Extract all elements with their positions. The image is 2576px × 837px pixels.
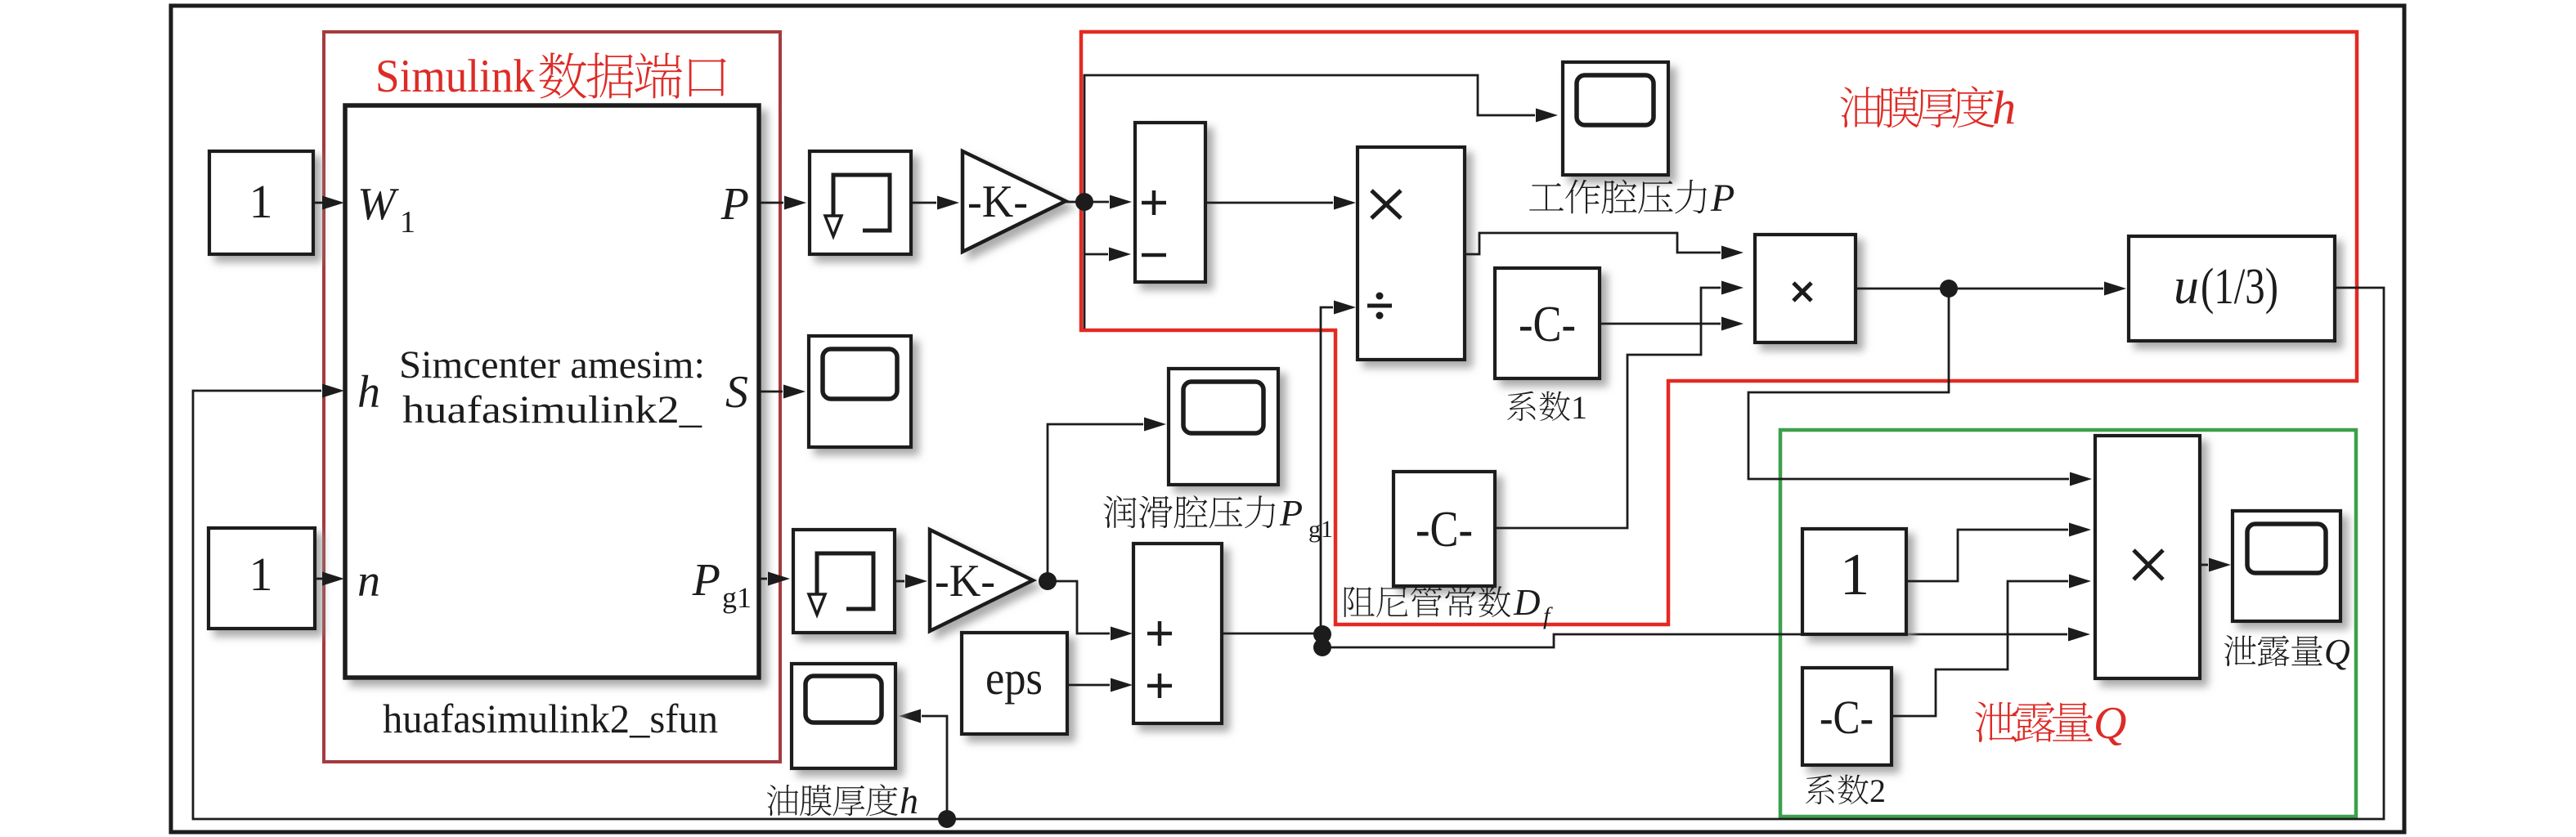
wire: sum1 to product1	[1205, 196, 1356, 210]
scope: working chamber pressure P	[1563, 62, 1668, 175]
wire: gain2 junction	[1039, 572, 1057, 590]
label: huafasimulink2_sfun	[383, 696, 718, 741]
multiplier block 2 (x)	[1755, 235, 1856, 342]
svg-text:h: h	[357, 367, 380, 418]
svg-text:1: 1	[400, 205, 415, 239]
svg-text:P: P	[692, 555, 720, 606]
wire: const1 to W1 port	[313, 196, 344, 210]
wire: junction long run to leakage multiplier input 4	[1322, 628, 2090, 648]
label: coefficient 2	[1806, 772, 1886, 809]
wire: junction to sum2 first plus input	[1048, 581, 1133, 641]
svg-text:1: 1	[1840, 541, 1870, 607]
wire: junction up to divide input of product1	[1321, 301, 1356, 634]
svg-text:-C-: -C-	[1820, 691, 1874, 744]
wire: junction down-left into green region multiplier input 1	[1748, 289, 2092, 486]
wire: sum2 output to junction with stacked dots	[1222, 625, 1331, 656]
svg-text:h: h	[900, 780, 918, 821]
label: working chamber pressure P	[1529, 177, 1735, 220]
wire: memory2 to gain2	[895, 575, 927, 589]
scope S	[809, 336, 911, 447]
gain block 1 (-K-)	[963, 151, 1066, 252]
svg-text:Simulink: Simulink	[375, 51, 535, 102]
constant block 1 (input W1)	[209, 151, 313, 254]
svg-text:D: D	[1513, 582, 1541, 623]
scope: oil film thickness h (flipped)	[792, 664, 895, 768]
wire: multiplier2 to u(1/3) with junction	[1855, 280, 2126, 298]
sum block 1 (+ -)	[1135, 123, 1205, 282]
svg-text:eps: eps	[985, 651, 1043, 705]
svg-text:S: S	[725, 367, 748, 418]
wire: coefficient2 to multiplier3 input 3	[1892, 575, 2091, 717]
wire: memory1 to gain1	[911, 196, 959, 210]
multiplier block 3 (x, leakage)	[2095, 436, 2200, 678]
wire: const to n port	[315, 572, 344, 586]
wire: junction A down to sum1 minus input	[1084, 202, 1131, 329]
green annotation box: leakage Q region	[1780, 430, 2356, 817]
svg-text:W: W	[357, 179, 399, 230]
svg-text:huafasimulink2_: huafasimulink2_	[402, 388, 702, 432]
wire: junction A up to working-chamber-pressure scope	[1084, 75, 1558, 202]
svg-text:-K-: -K-	[967, 177, 1028, 227]
wire: product1 output to multiplier2 input 1	[1465, 233, 1744, 260]
svg-text:Simcenter amesim:: Simcenter amesim:	[399, 343, 705, 387]
constant -C- (coefficient 2)	[1802, 668, 1892, 765]
svg-text:h: h	[1992, 81, 2016, 134]
constant 1 (green region)	[1802, 529, 1906, 634]
wire: P port to memory1	[759, 196, 806, 210]
svg-text:Q: Q	[2324, 632, 2350, 672]
wire: feedback junction up into flipped scope	[899, 709, 947, 820]
gain block 2 (-K-)	[930, 530, 1033, 631]
wire: Pg1 port to memory2	[759, 572, 790, 586]
title: leakage Q (red)	[1975, 698, 2126, 749]
wire: damping const to multiplier2 input 2	[1495, 281, 1744, 529]
svg-text:1: 1	[249, 548, 273, 601]
red annotation box: Simulink data ports region	[324, 32, 780, 762]
svg-text:-C-: -C-	[1416, 502, 1473, 557]
svg-text:2: 2	[1869, 772, 1886, 809]
svg-text:1: 1	[1571, 389, 1587, 426]
title: oil film thickness h (red)	[1840, 81, 2016, 134]
title: Simulink data port (red)	[375, 51, 726, 102]
wire: u(1/3) output feedback loop to h input	[193, 288, 2384, 819]
junction on feedback line for film thickness scope	[938, 810, 956, 828]
label: coefficient 1	[1507, 389, 1587, 426]
eps constant block	[962, 633, 1067, 734]
sum block 2 (+ +)	[1133, 544, 1222, 723]
constant -C- (coefficient 1)	[1495, 268, 1600, 378]
wire: S port to scope S	[759, 385, 806, 399]
svg-text:g1: g1	[722, 581, 752, 614]
wire: const1 to multiplier3 input 2	[1906, 523, 2091, 582]
constant block 1 (input n)	[209, 528, 315, 629]
scope: lubrication chamber pressure Pg1	[1169, 369, 1278, 485]
memory block 2 (Pg1)	[793, 530, 895, 633]
red annotation polygon: oil film thickness h region	[1081, 32, 2357, 624]
svg-text:-C-: -C-	[1519, 297, 1576, 352]
svg-text:Q: Q	[2094, 698, 2126, 749]
label: oil film thickness h (black)	[767, 780, 918, 821]
wire: multiplier3 to leakage scope	[2200, 558, 2231, 572]
svg-text:huafasimulink2_sfun: huafasimulink2_sfun	[383, 696, 718, 741]
function block u(1/3)	[2129, 236, 2335, 341]
S-function block huafasimulink2_sfun	[345, 105, 759, 678]
memory block 1 (P)	[810, 151, 911, 254]
label: lubrication chamber pressure Pg1	[1103, 492, 1333, 543]
svg-text:P: P	[1710, 177, 1735, 220]
label: leakage Q (black)	[2224, 632, 2350, 672]
svg-text:1: 1	[249, 175, 273, 228]
svg-text:P: P	[1279, 492, 1303, 534]
wire: gain1 to sum1 with junction A	[1066, 193, 1132, 211]
product block 1 (x /)	[1358, 147, 1465, 360]
svg-text:u: u	[2174, 259, 2199, 315]
svg-text:n: n	[357, 556, 380, 606]
wire: junction up to lubrication-chamber-pressure scope	[1048, 418, 1166, 582]
label: damping tube constant Df	[1344, 582, 1553, 629]
svg-text:P: P	[720, 179, 749, 230]
svg-text:-K-: -K-	[935, 556, 995, 606]
constant -C- (damping tube constant Df)	[1393, 472, 1495, 586]
svg-text:(1/3): (1/3)	[2201, 259, 2278, 315]
scope: leakage Q	[2233, 511, 2340, 621]
wire: eps to sum2 second plus input	[1067, 678, 1133, 692]
wire: coefficient1 to multiplier2 input 3	[1600, 317, 1744, 331]
